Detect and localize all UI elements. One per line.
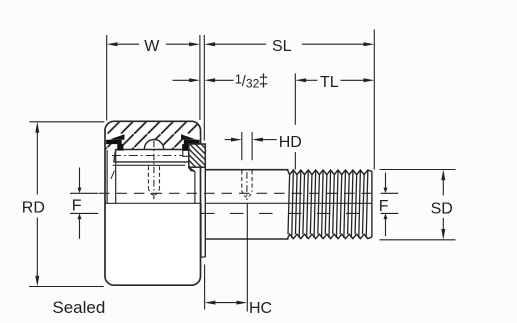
svg-text:F: F — [72, 198, 82, 215]
svg-text:TL: TL — [320, 74, 339, 91]
svg-text:W: W — [144, 38, 160, 55]
svg-text:‡: ‡ — [259, 71, 269, 91]
svg-text:RD: RD — [22, 199, 45, 216]
svg-text:SD: SD — [431, 200, 453, 217]
svg-text:Sealed: Sealed — [52, 298, 105, 317]
svg-text:32: 32 — [246, 77, 260, 91]
svg-text:SL: SL — [272, 38, 292, 55]
svg-text:F: F — [379, 198, 389, 215]
svg-text:HD: HD — [279, 134, 302, 151]
svg-text:HC: HC — [249, 300, 272, 317]
